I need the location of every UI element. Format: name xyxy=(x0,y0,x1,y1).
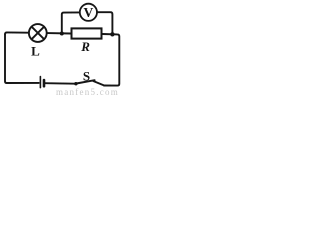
svg-text:R: R xyxy=(80,39,90,54)
svg-text:S: S xyxy=(83,68,90,83)
svg-text:V: V xyxy=(84,5,94,20)
svg-text:L: L xyxy=(31,44,40,59)
svg-text:manfen5.com: manfen5.com xyxy=(56,87,119,97)
